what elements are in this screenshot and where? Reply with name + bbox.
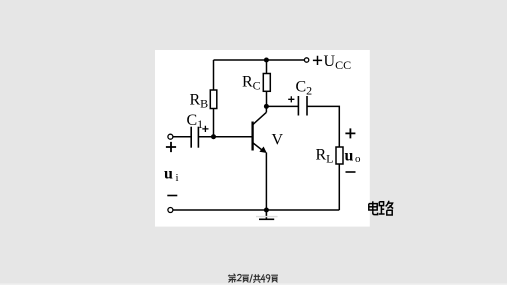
text 电路 (drawn glyphs) [369, 201, 393, 215]
capacitor C2 [298, 96, 307, 116]
glyph / [250, 274, 253, 282]
wire RB branch vertical [213, 60, 215, 90]
resistor RC [263, 74, 270, 92]
svg-text:V: V [272, 132, 284, 149]
wire RL bottom to bottom rail [338, 164, 340, 210]
glyph 页 (second) [271, 275, 278, 282]
svg-text:i: i [176, 172, 179, 184]
glyph 页 [242, 275, 249, 282]
label minus input [167, 195, 177, 197]
transistor emitter arrowhead [259, 147, 266, 154]
label plus near C2 [288, 96, 294, 102]
路 [379, 202, 383, 206]
wire top rail (Ucc rail) [214, 59, 307, 61]
ground [259, 210, 274, 219]
terminal input open circle [168, 134, 173, 139]
label plus output [345, 128, 355, 138]
node ground junction dot [264, 208, 269, 213]
svg-text:o: o [355, 153, 361, 165]
label minus output [346, 171, 356, 173]
svg-text:u: u [345, 148, 354, 165]
label +Ucc [313, 56, 322, 65]
terminal bottom-left open circle [168, 208, 173, 213]
caption 第2页/共49页 (drawn tiny glyphs) [228, 274, 278, 283]
node collector junction dot [264, 104, 269, 109]
glyph 9 [266, 275, 270, 283]
label plus input [166, 142, 176, 152]
glyph 2 [238, 274, 242, 280]
slide white background panel [155, 50, 370, 227]
terminal Ucc open circle [304, 58, 308, 62]
wire emitter vertical down [265, 153, 267, 211]
wire RC branch vertical [266, 60, 268, 74]
wire C2 to right corner and down to RL [307, 106, 339, 147]
wire input to C1 [173, 136, 191, 138]
bottom light strip [0, 283, 507, 285]
电 [372, 201, 374, 212]
resistor RB [210, 90, 217, 109]
glyph 4 [261, 274, 265, 282]
ground faint wide bar [256, 216, 278, 218]
capacitor C1 [191, 127, 198, 148]
wire bottom rail [173, 209, 339, 211]
glyph 第 [228, 274, 236, 277]
glyph 共 [253, 274, 261, 283]
node top rail junction dot [264, 58, 269, 63]
transistor V [253, 106, 267, 150]
node base junction dot [211, 134, 216, 139]
wire collector node to C2 [266, 105, 298, 107]
wire C1 to base node [198, 136, 252, 138]
svg-text:u: u [164, 166, 173, 183]
label plus near C1 [202, 126, 208, 132]
resistor RL [336, 147, 343, 164]
